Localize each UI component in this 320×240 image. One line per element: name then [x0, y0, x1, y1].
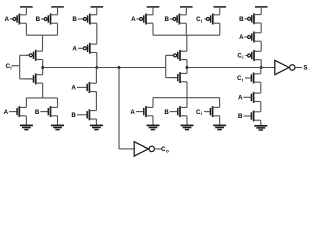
- svg-text:A: A: [4, 109, 9, 116]
- wire sum NMOS trio drains join: [153, 98, 220, 108]
- svg-text:A: A: [72, 46, 77, 53]
- svg-text:A: A: [131, 16, 136, 23]
- svg-text:B: B: [72, 16, 77, 23]
- node Cout_bar junction: [41, 66, 44, 69]
- wire VDD to PMOS B source: [260, 7, 262, 15]
- wire NMOS C to NMOS A: [260, 82, 262, 93]
- wire Sbar node line: [187, 67, 275, 69]
- PMOS A (AB series): [72, 43, 96, 54]
- svg-text:B: B: [36, 16, 41, 23]
- inverter U2 (sum out): [275, 60, 308, 74]
- ground: [213, 125, 226, 129]
- PMOS A (ABC series): [239, 32, 261, 43]
- NMOS A (ABC series): [238, 92, 261, 103]
- inverter U1 (carry out): [134, 142, 169, 156]
- wire PMOS drain to Sbar node: [186, 60, 188, 68]
- svg-text:B: B: [35, 109, 40, 116]
- svg-text:i: i: [242, 55, 243, 60]
- ground: [51, 125, 64, 129]
- wire NMOS source down to trio: [186, 82, 188, 108]
- PMOS C (carry series): [26, 50, 43, 61]
- wire PMOS A/B drains join: [26, 23, 57, 51]
- svg-text:i: i: [201, 19, 202, 24]
- NMOS B (sum pull-down): [164, 106, 187, 117]
- NMOS Cout_bar (sum series): [170, 72, 187, 83]
- wire NMOS A/B drains join: [26, 98, 57, 108]
- NMOS A (carry pull-down): [4, 106, 27, 117]
- wire NMOS drain to Sbar node: [186, 68, 188, 74]
- ground: [181, 125, 194, 129]
- PMOS C (sum pull-up): [196, 14, 220, 25]
- wire Cout_bar node line: [43, 67, 166, 69]
- PMOS B (sum pull-up): [164, 14, 186, 25]
- wire VDD to PMOS B source: [185, 7, 187, 15]
- wire PMOS A drain to node: [96, 53, 98, 68]
- PMOS B (ABC series): [239, 13, 261, 24]
- svg-text:S: S: [303, 65, 307, 72]
- wire VDD to PMOS C source: [219, 7, 221, 15]
- node Cout_bar at AB branch: [95, 66, 98, 69]
- NMOS B (carry pull-down): [35, 106, 58, 117]
- ground: [254, 126, 267, 130]
- wire NMOS C source to ground: [219, 116, 221, 126]
- wire NMOS B source to ground: [260, 120, 262, 126]
- wire VDD to PMOS A source: [25, 7, 27, 15]
- ground: [20, 125, 33, 129]
- wire PMOS C drain to node: [42, 60, 44, 68]
- wire NMOS A source to ground: [152, 116, 154, 126]
- wire NMOS C drain to node: [42, 68, 44, 75]
- wire NMOS A to NMOS B: [260, 102, 262, 112]
- wire sum PMOS drains join: [153, 23, 220, 51]
- VDD rail: [147, 6, 160, 8]
- svg-text:B: B: [71, 112, 76, 119]
- wire NMOS B source to ground: [95, 119, 97, 125]
- wire PMOS B drain to PMOS A source: [96, 23, 98, 44]
- VDD rail: [51, 6, 64, 8]
- ground: [90, 125, 103, 129]
- wire PMOS A to PMOS C: [260, 41, 262, 51]
- PMOS B (carry pull-up): [36, 14, 58, 25]
- NMOS B (ABC series): [238, 111, 261, 122]
- wire NMOS B source to ground: [57, 116, 59, 126]
- svg-text:B: B: [164, 16, 169, 23]
- wire down to carry inverter: [119, 68, 134, 149]
- svg-text:A: A: [4, 16, 9, 23]
- VDD rail: [20, 6, 33, 8]
- PMOS B (AB series): [72, 14, 96, 25]
- NMOS C (sum pull-down): [196, 106, 220, 117]
- wire node to NMOS A drain: [95, 68, 97, 84]
- node Sbar at series branch: [260, 66, 263, 69]
- NMOS B (AB series): [71, 109, 96, 120]
- Ci input label: [6, 63, 12, 70]
- node Sbar junction: [186, 66, 189, 69]
- wire VDD to PMOS A source: [152, 7, 154, 15]
- NMOS C (ABC series): [237, 73, 261, 84]
- wire node to NMOS C drain: [260, 68, 262, 74]
- VDD rail: [255, 6, 268, 8]
- svg-text:A: A: [71, 85, 76, 92]
- svg-text:A: A: [238, 95, 243, 102]
- wire PMOS B to PMOS A: [260, 23, 262, 33]
- VDD rail: [214, 6, 227, 8]
- svg-text:A: A: [130, 109, 135, 116]
- ground: [147, 125, 160, 129]
- wire Cout_bar gate net: [166, 55, 178, 77]
- wire NMOS A source to ground: [25, 116, 27, 126]
- wire VDD to PMOS B source: [96, 7, 98, 15]
- VDD rail: [180, 6, 193, 8]
- wire VDD to PMOS B source: [57, 7, 59, 15]
- NMOS A (AB series): [71, 82, 96, 93]
- svg-text:B: B: [238, 113, 243, 120]
- svg-text:B: B: [164, 109, 169, 116]
- svg-text:A: A: [239, 34, 244, 41]
- wire NMOS C source down: [42, 83, 44, 98]
- PMOS C (ABC series): [237, 50, 261, 61]
- node junction to inverter: [118, 66, 121, 69]
- svg-text:i: i: [242, 78, 243, 83]
- PMOS A (carry pull-up): [4, 14, 26, 25]
- svg-text:i: i: [201, 111, 202, 116]
- wire PMOS C drain to node: [260, 60, 262, 68]
- PMOS A (sum pull-up): [131, 14, 153, 25]
- PMOS Cout_bar (sum series): [170, 50, 187, 61]
- wire Ci gate net: [11, 55, 33, 79]
- wire NMOS A source to NMOS B drain: [95, 92, 97, 111]
- svg-text:B: B: [239, 16, 244, 23]
- NMOS C (carry series): [26, 73, 43, 84]
- svg-text:o: o: [166, 149, 169, 154]
- VDD rail: [91, 6, 104, 8]
- wire NMOS B source to ground: [186, 116, 188, 126]
- NMOS A (sum pull-down): [130, 106, 153, 117]
